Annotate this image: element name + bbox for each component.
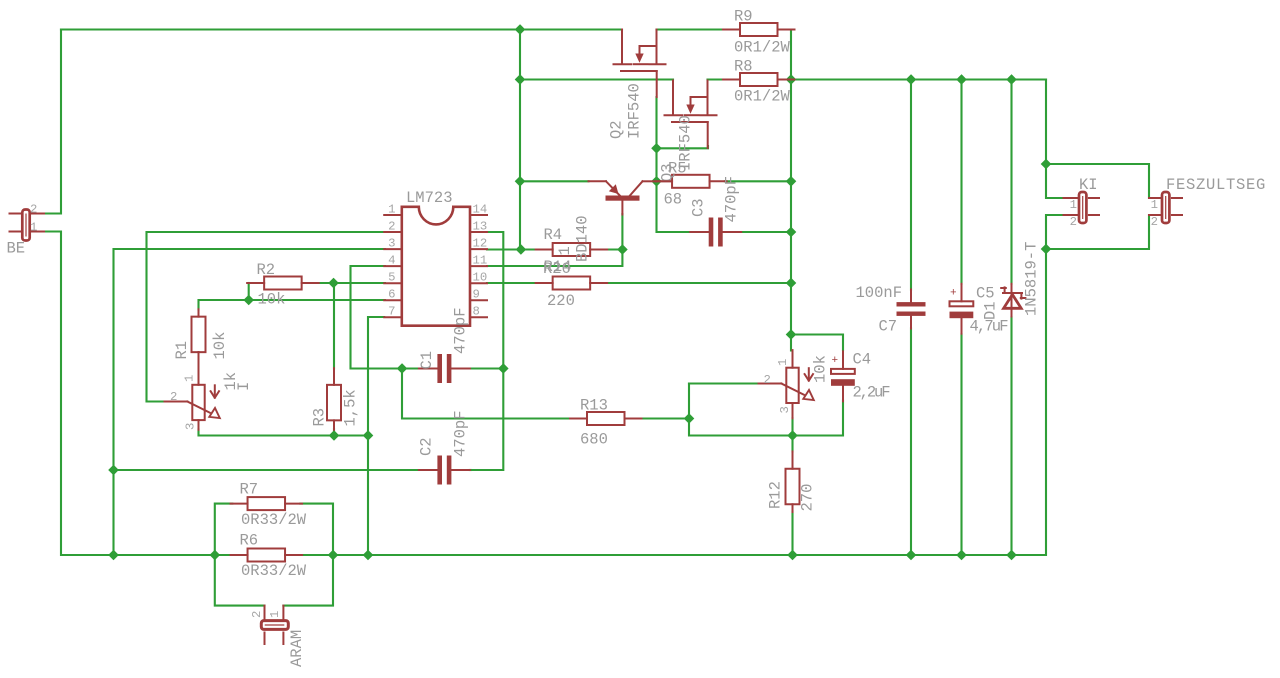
wire R7 left vertical	[215, 504, 265, 606]
wire Q3 source to R8	[708, 78, 725, 80]
label R4	[544, 226, 563, 244]
diode D1 1N5819	[1001, 284, 1025, 317]
resistor R3	[327, 368, 341, 430]
svg-text:C2: C2	[418, 437, 436, 456]
capacitor C1	[419, 354, 470, 383]
wire R5 right	[725, 180, 791, 182]
label R13	[580, 397, 608, 415]
junction top rail x=520	[515, 25, 524, 34]
wire R9/R8 output vertical rail x=791	[790, 30, 792, 351]
svg-text:10: 10	[473, 271, 488, 285]
pin number 14	[473, 202, 488, 216]
connector FESZULTSEG	[1162, 192, 1169, 223]
svg-text:0R33/2W: 0R33/2W	[241, 511, 307, 529]
label BE	[7, 240, 26, 258]
pot2 pin number 1	[776, 359, 790, 366]
svg-text:11: 11	[473, 254, 488, 268]
label C1 value	[452, 307, 470, 354]
svg-text:KI: KI	[1079, 176, 1098, 194]
BE pin number 1	[30, 221, 37, 235]
svg-text:C5: C5	[976, 285, 995, 303]
label pot2 value 10k	[812, 355, 830, 383]
resistor R7	[231, 497, 302, 510]
label R8 value	[734, 88, 791, 106]
svg-text:R6: R6	[240, 532, 259, 550]
svg-text:Q2: Q2	[608, 120, 626, 139]
pot1 pin number 3	[184, 423, 198, 430]
wire R2 left down to pin6 row	[248, 283, 250, 300]
wire pot2 pin3 to R12	[791, 418, 793, 452]
svg-text:5: 5	[388, 271, 395, 285]
label R2	[257, 261, 276, 279]
label Q3 value	[677, 115, 695, 171]
label FESZULTSEG	[1166, 176, 1266, 194]
svg-text:IRF540: IRF540	[677, 115, 695, 171]
label R8	[734, 58, 753, 76]
svg-text:270: 270	[799, 484, 817, 512]
svg-text:LM723: LM723	[406, 189, 453, 207]
svg-text:2: 2	[30, 203, 37, 217]
junction KI bottom	[1041, 244, 1050, 253]
resistor R1	[192, 309, 206, 360]
junction rail pin7 column	[363, 550, 372, 559]
wire output rail right	[791, 78, 1046, 80]
wire Q2 gate column	[657, 97, 691, 232]
label C7 value	[856, 284, 903, 302]
svg-text:220: 220	[547, 292, 575, 310]
wire top rail vertical drop at x=520	[519, 30, 521, 250]
svg-text:0R1/2W: 0R1/2W	[734, 88, 791, 106]
junction gate row	[652, 144, 661, 153]
junction rail x=113	[109, 550, 118, 559]
svg-text:2: 2	[388, 219, 395, 233]
wire R2 to pin5 row	[317, 282, 385, 284]
junction D1 top	[1007, 75, 1016, 84]
svg-text:6: 6	[388, 288, 395, 302]
svg-text:14: 14	[473, 202, 488, 216]
wire KI loop top	[1046, 80, 1064, 199]
wire C2 right	[470, 469, 471, 471]
wire LM723 pin4 to C1 node	[351, 266, 403, 369]
pot2 pin number 3	[778, 406, 792, 413]
wire gate row Q2-Q3	[657, 146, 709, 148]
wire R13 right to pot2 node	[641, 417, 690, 419]
svg-text:470pF: 470pF	[723, 176, 741, 223]
label R4 value	[556, 246, 574, 255]
svg-text:3: 3	[778, 406, 792, 413]
label R10 value	[547, 292, 575, 310]
wire R10 to output vertical	[606, 282, 792, 284]
svg-text:7: 7	[388, 305, 395, 319]
svg-text:C7: C7	[879, 318, 898, 336]
junction BJT base pin12	[618, 245, 627, 254]
svg-text:8: 8	[473, 305, 480, 319]
label Q2 value	[626, 83, 644, 139]
svg-text:BD140: BD140	[574, 215, 592, 262]
capacitor C5	[950, 284, 974, 334]
pin number 1	[388, 202, 395, 216]
svg-text:C1: C1	[418, 351, 436, 370]
wire KI-FES top link	[1046, 164, 1149, 198]
junction C1 right	[499, 364, 508, 373]
wire R3 bottom to node	[333, 429, 335, 436]
wire D1 column top	[1010, 80, 1012, 285]
wire pot2 wiper vertical	[689, 384, 843, 436]
resistor R13	[570, 412, 642, 425]
label C2 value	[452, 410, 470, 457]
wire R12 bottom to rail	[791, 512, 793, 556]
pin number 3	[388, 237, 395, 251]
resistor R2	[247, 277, 319, 290]
svg-text:1: 1	[776, 359, 790, 366]
svg-text:1: 1	[30, 221, 37, 235]
svg-text:470pF: 470pF	[452, 410, 470, 457]
resistor R4	[536, 243, 608, 256]
svg-text:BE: BE	[7, 240, 26, 258]
svg-text:470pF: 470pF	[452, 307, 470, 354]
junction R13 pot2	[684, 414, 693, 423]
wire C2 row left	[114, 469, 420, 471]
svg-text:2: 2	[170, 390, 177, 404]
pot2 pin number 2	[764, 373, 771, 387]
label C7	[879, 318, 898, 336]
label R9 value	[734, 39, 791, 57]
label R12	[767, 481, 785, 509]
svg-text:R2: R2	[257, 261, 276, 279]
resistor R5	[655, 175, 727, 188]
potentiometer I 1k	[165, 352, 220, 430]
wire R3 top to pin5 row	[333, 283, 335, 369]
junction rail x=333	[328, 550, 337, 559]
pin number 7	[388, 305, 395, 319]
label C4	[853, 351, 872, 369]
label R3	[311, 408, 329, 427]
label R1	[173, 341, 191, 360]
resistor R12	[786, 452, 800, 513]
svg-text:1: 1	[183, 375, 197, 382]
svg-text:2: 2	[250, 611, 264, 618]
label R5 value	[664, 191, 683, 209]
pot1 pin number 2	[170, 390, 177, 404]
svg-text:2: 2	[764, 373, 771, 387]
junction C2 row x=113	[109, 465, 118, 474]
svg-text:2: 2	[1070, 215, 1077, 229]
svg-text:R12: R12	[767, 481, 785, 509]
svg-text:R8: R8	[734, 58, 753, 76]
junction rail D1	[1007, 550, 1016, 559]
label Q3	[659, 163, 677, 182]
wire BE pin1 down to bottom rail	[44, 232, 232, 556]
wire C3 right	[741, 231, 791, 233]
wire D1 column bottom	[1010, 317, 1012, 555]
wire emitter row from x=520	[520, 180, 589, 182]
junction R10 out	[786, 278, 795, 287]
wire pin10 to R10	[487, 282, 537, 284]
wire LM723 pin3 row	[114, 249, 386, 555]
transistor Q3 IRF540	[665, 81, 717, 149]
wire KI pin2 down	[1046, 215, 1149, 249]
pin number 2	[388, 219, 395, 233]
pin number 12	[473, 237, 488, 251]
junction collector row	[652, 177, 661, 186]
junction rail R12	[788, 550, 797, 559]
junction KI top	[1041, 159, 1050, 168]
transistor Q2 IRF540	[614, 30, 666, 98]
label R13 value	[580, 431, 608, 449]
label C3	[690, 198, 708, 217]
svg-text:R13: R13	[580, 397, 608, 415]
connector KI	[1079, 192, 1086, 223]
BE pin number 2	[30, 203, 37, 217]
connector ARAM	[261, 621, 288, 630]
label R7 value	[241, 511, 307, 529]
svg-text:0R1/2W: 0R1/2W	[734, 39, 791, 57]
wire second rail to Q3 drain	[520, 78, 673, 80]
label pot1 name I	[235, 382, 253, 391]
wire R7 right vertical	[283, 504, 333, 606]
label D1 value 1N5819-T	[1023, 242, 1041, 316]
wire BE pin2 up to top rail	[44, 30, 61, 214]
svg-text:1,5k: 1,5k	[342, 389, 360, 426]
svg-text:0R33/2W: 0R33/2W	[241, 562, 307, 580]
svg-text:1: 1	[388, 202, 395, 216]
connector BE pads	[10, 214, 45, 232]
label R20 overlapped	[543, 260, 571, 278]
svg-text:I: I	[235, 382, 253, 391]
wire pot2 wiper row	[689, 382, 760, 384]
svg-text:9: 9	[473, 288, 480, 302]
capacitor C4	[831, 351, 855, 401]
label R5	[668, 160, 687, 178]
capacitor C2	[419, 456, 470, 485]
svg-text:2,2uF: 2,2uF	[853, 384, 891, 402]
capacitor C3	[690, 218, 741, 247]
label C3 value	[723, 176, 741, 223]
wire LM723 pin6 row	[199, 300, 386, 310]
pin number 4	[388, 254, 395, 268]
junction R3 pin5	[329, 278, 338, 287]
svg-text:C4: C4	[853, 351, 872, 369]
label C2	[418, 437, 436, 456]
svg-text:10k: 10k	[258, 291, 286, 309]
svg-text:10k: 10k	[812, 355, 830, 383]
svg-text:10k: 10k	[211, 332, 229, 360]
wire R4 to BJT base node	[606, 248, 623, 250]
label BD140 value	[574, 215, 592, 262]
junction rail2 x=520	[515, 75, 524, 84]
svg-text:100nF: 100nF	[856, 284, 903, 302]
wire pin13 down C1-C2 column	[470, 232, 503, 470]
transistor Q1 BD140	[589, 181, 657, 214]
svg-text:1: 1	[268, 611, 282, 618]
pin number 9	[473, 288, 480, 302]
label R6	[240, 532, 259, 550]
label C4 value	[853, 384, 891, 402]
label D1	[982, 301, 1000, 320]
svg-text:12: 12	[473, 237, 488, 251]
junction R2 pin6	[244, 295, 253, 304]
capacitor C7	[897, 290, 926, 329]
svg-text:3: 3	[388, 237, 395, 251]
wire LM723 pin7 down to pot row	[368, 317, 384, 555]
svg-text:680: 680	[580, 431, 608, 449]
wire top rail from BE to Q2 drain	[61, 28, 622, 30]
label R9	[734, 8, 753, 26]
label R12 value	[799, 484, 817, 512]
svg-text:D1: D1	[982, 301, 1000, 320]
label LM723	[406, 189, 453, 207]
wire BJT base vertical	[487, 214, 622, 266]
svg-text:R4: R4	[544, 226, 563, 244]
op-amp U1 LM723 body and pins	[384, 207, 487, 326]
wire C5 column top	[960, 80, 962, 285]
pot1 pin number 1	[183, 375, 197, 382]
junction C5 top	[957, 75, 966, 84]
label C5	[976, 285, 995, 303]
label R7	[240, 481, 259, 499]
pin number 11	[473, 254, 488, 268]
KI pin number 2	[1070, 215, 1077, 229]
label C5 value	[970, 318, 1009, 336]
resistor R10	[536, 277, 608, 290]
svg-text:C3: C3	[690, 198, 708, 217]
junction pin12 row x=520	[516, 245, 525, 254]
svg-text:IRF540: IRF540	[626, 83, 644, 139]
svg-text:R3: R3	[311, 408, 329, 427]
wire C7 column top	[910, 80, 912, 290]
svg-text:FESZULTSEG: FESZULTSEG	[1166, 176, 1266, 194]
resistor R9	[723, 23, 795, 36]
svg-text:R9: R9	[734, 8, 753, 26]
wire R5 left stub	[658, 180, 672, 182]
svg-text:1N5819-T: 1N5819-T	[1023, 242, 1041, 316]
svg-text:4: 4	[388, 254, 395, 268]
svg-text:R1: R1	[173, 341, 191, 360]
label pot1 value 1k	[222, 372, 240, 391]
wire C7 column bottom	[910, 328, 912, 555]
label Q2	[608, 120, 626, 139]
svg-text:68: 68	[664, 191, 683, 209]
pin number 5	[388, 271, 395, 285]
label R10 overlapped	[544, 258, 572, 276]
potentiometer 10k	[759, 350, 814, 418]
svg-text:+: +	[832, 355, 839, 367]
svg-text:ARAM: ARAM	[288, 630, 306, 667]
label R6 value	[241, 562, 307, 580]
svg-text:Q3: Q3	[659, 163, 677, 182]
junction R3 bottom	[329, 431, 338, 440]
junction C4 branch	[786, 330, 795, 339]
pin number 6	[388, 288, 395, 302]
connector ARAM pads	[265, 606, 284, 644]
pin number 8	[473, 305, 480, 319]
connector BE	[22, 210, 29, 241]
junction pot2 pin3	[788, 431, 797, 440]
FESZULTSEG pin number 2	[1151, 215, 1158, 229]
svg-text:1: 1	[556, 246, 574, 255]
connector FESZULTSEG pads	[1149, 198, 1182, 215]
pin number 10	[473, 271, 488, 285]
svg-text:1: 1	[1151, 198, 1158, 212]
junction emitter row x=520	[515, 177, 524, 186]
junction pin7 pot row	[363, 431, 372, 440]
label R2 value	[258, 291, 286, 309]
svg-text:2: 2	[1151, 215, 1158, 229]
wire bottom rail right of R6	[300, 249, 1046, 555]
svg-text:R20: R20	[543, 260, 571, 278]
junction C3 out	[786, 227, 795, 236]
connector KI pads	[1064, 198, 1100, 215]
svg-text:3: 3	[184, 423, 198, 430]
junction rail C5	[957, 550, 966, 559]
junction C1 left	[397, 364, 406, 373]
wire pin12 to R4	[487, 248, 537, 250]
resistor R6	[231, 549, 302, 562]
ARAM pin number 1	[268, 611, 282, 618]
svg-text:R7: R7	[240, 481, 259, 499]
junction rail x=215	[210, 550, 219, 559]
resistor R8	[723, 73, 795, 86]
svg-text:1: 1	[1070, 198, 1077, 212]
FESZULTSEG pin number 1	[1151, 198, 1158, 212]
label R1 value	[211, 332, 229, 360]
label ARAM	[288, 630, 306, 667]
label KI	[1079, 176, 1098, 194]
junction C7 top	[906, 75, 915, 84]
wire pot1 pin3 row	[199, 430, 369, 436]
ARAM pin number 2	[250, 611, 264, 618]
junction rail C7	[906, 550, 915, 559]
wire Q2 source to R9	[657, 28, 725, 30]
svg-text:+: +	[950, 287, 957, 299]
wire C1 node down to R13 row	[402, 369, 572, 419]
label R3 value	[342, 389, 360, 426]
wire C5 column bottom	[960, 334, 962, 555]
wire C1 left	[402, 367, 419, 369]
junction R8 output	[786, 75, 795, 84]
KI pin number 1	[1070, 198, 1077, 212]
wire C4 top branch	[791, 335, 843, 351]
junction R5 out	[786, 177, 795, 186]
pin number 13	[473, 219, 488, 233]
wire C1 right to x=503	[470, 367, 504, 369]
label C1	[418, 351, 436, 370]
wire LM723 pin2 row	[147, 232, 386, 402]
svg-text:13: 13	[473, 219, 488, 233]
